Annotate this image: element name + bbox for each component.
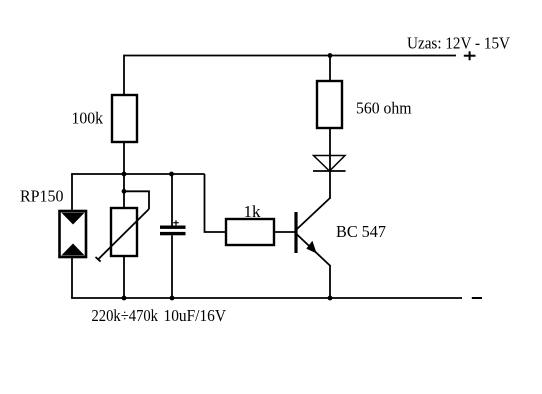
diode LED [313,156,346,172]
wire collector up to diode [329,171,331,199]
junction dot node/100k [122,172,127,177]
svg-text:10uF/16V: 10uF/16V [164,306,227,325]
minus terminal [472,297,482,299]
svg-text:BC 547: BC 547 [336,222,386,241]
svg-text:1k: 1k [244,202,262,221]
+ terminal [464,51,476,60]
svg-text:100k: 100k [72,109,104,128]
wire 1k to transistor base [274,231,295,233]
wire capacitor bottom to ground rail [171,235,173,298]
junction dot emitter/ground [328,296,333,301]
capacitor 10uF/16V [160,220,226,325]
wire pot bottom to ground rail [123,256,125,298]
wire node to RP150 top [71,173,73,211]
transistor BC 547 [294,198,386,266]
ground rail wire [71,297,462,299]
supply label Uzas: 12V - 15V [407,34,510,53]
resistor 560 ohm [317,81,412,128]
resistor 1k [226,202,274,245]
wire emitter to ground rail [329,266,331,299]
resistor 100k [72,95,138,142]
positive supply rail wire [124,55,456,57]
wire RP150 bottom to ground rail [71,257,73,299]
junction dot cap/ground [170,296,175,301]
wire 100k bottom to node line [123,142,125,174]
node wire horizontal [71,173,204,175]
svg-text:560 ohm: 560 ohm [356,99,412,118]
photoresistor RP150 [20,187,86,258]
wire node down to potentiometer top [123,174,125,208]
svg-text:220k÷470k: 220k÷470k [92,306,159,325]
junction dot node/cap [169,172,174,177]
potentiometer 220k divided 470k [92,191,159,325]
svg-text:Uzas: 12V - 15V: Uzas: 12V - 15V [407,34,510,53]
wire rail to 560 ohm top [329,55,331,81]
svg-text:RP150: RP150 [20,187,64,206]
junction dot wiper tap [122,189,127,194]
junction dot pot/ground [122,296,127,301]
wire 560 ohm to diode [329,128,331,171]
wire node to capacitor top [171,174,173,226]
wire rail to R 100k top [123,55,125,95]
junction dot rail/560 [328,53,333,58]
wire node to 1k resistor [205,174,227,232]
